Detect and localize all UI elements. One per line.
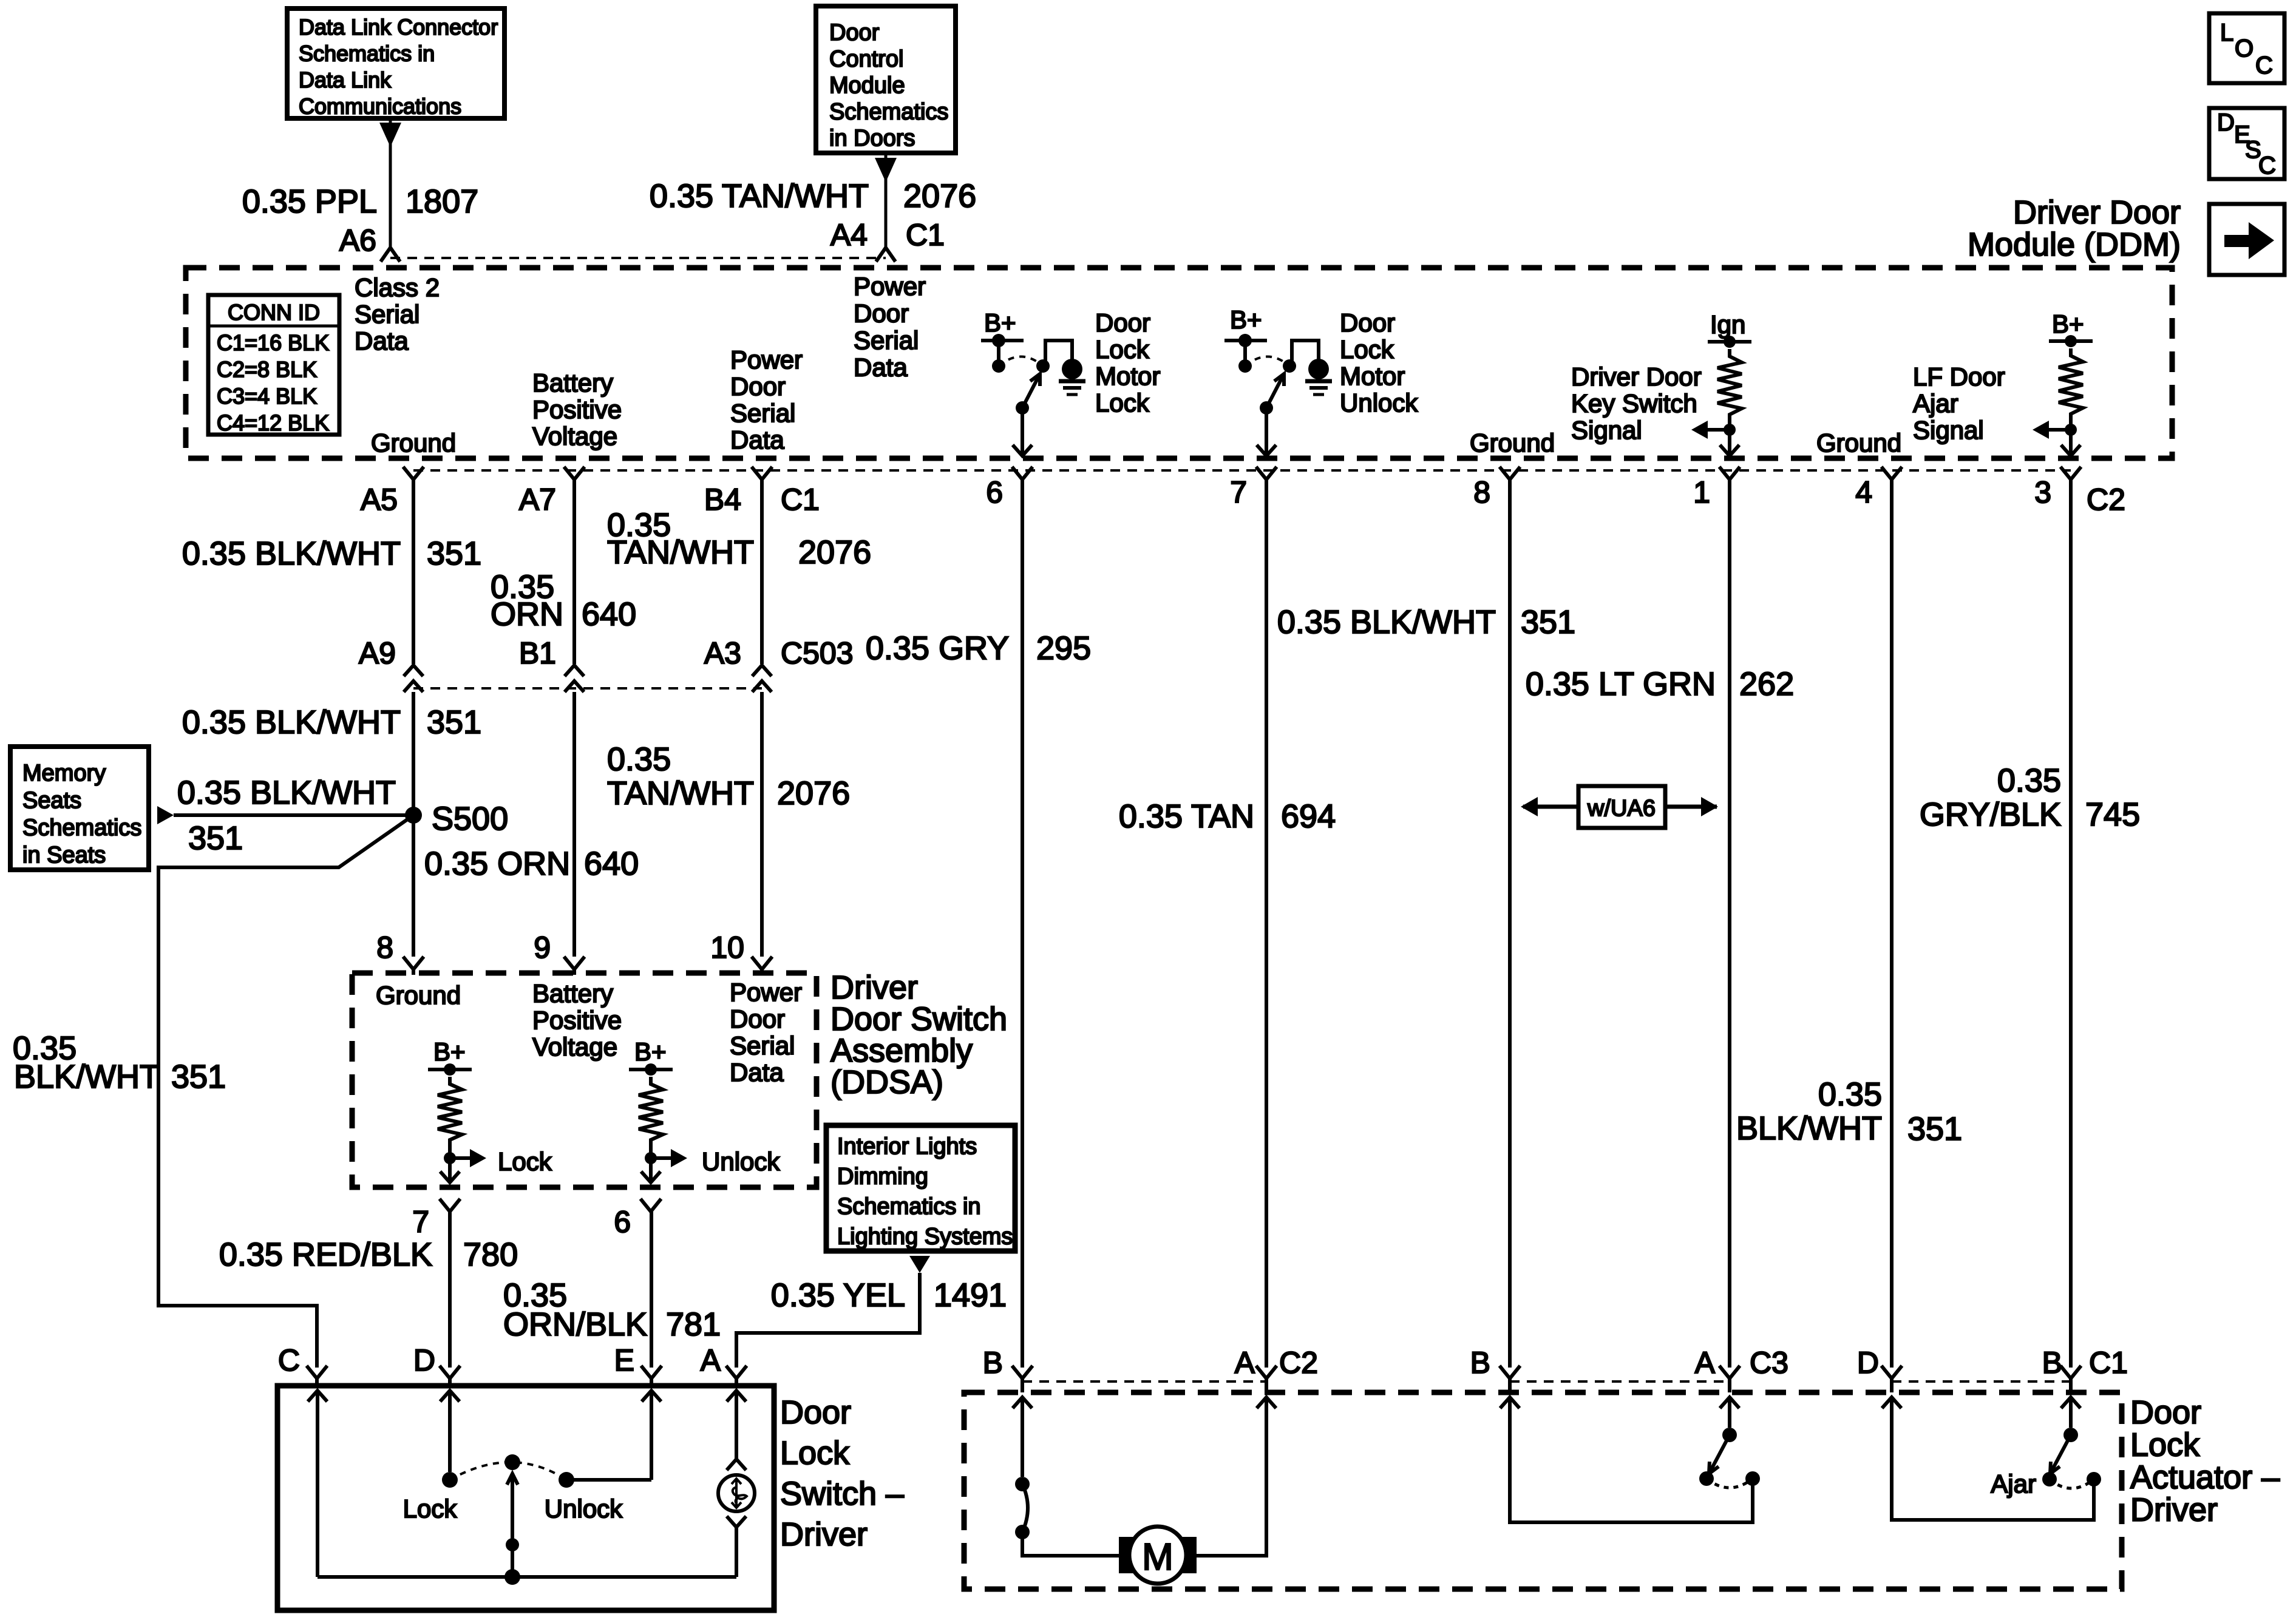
svg-text:0.35 TAN: 0.35 TAN xyxy=(1119,798,1254,835)
svg-text:Door: Door xyxy=(829,20,880,46)
wire from Memory Seats schematics to S500 xyxy=(157,806,413,824)
svg-text:745: 745 xyxy=(2085,796,2140,833)
svg-text:C1: C1 xyxy=(781,483,820,517)
reference box: Interior Lights Dimming Schematics in Lighting Systems xyxy=(826,1125,1015,1251)
svg-text:Serial: Serial xyxy=(854,326,919,354)
svg-text:Data: Data xyxy=(730,1058,784,1086)
wire TAN 694 from DDM pin 7 to actuator pin A xyxy=(1265,480,1268,1368)
output arrow to DDSA pin 6 xyxy=(641,1158,661,1182)
svg-text:2076: 2076 xyxy=(798,534,871,571)
svg-text:0.35 YEL: 0.35 YEL xyxy=(771,1277,905,1314)
connector fork at DDM pin 4 xyxy=(1881,467,1902,480)
svg-text:Control: Control xyxy=(829,47,904,72)
wire ORN/BLK 781 from DDSA pin 6 to switch pin E xyxy=(650,1212,653,1368)
svg-text:295: 295 xyxy=(1036,630,1091,666)
connector fork at DDM pin 7 xyxy=(1256,467,1277,480)
lock output node with arrow xyxy=(444,1147,486,1167)
svg-text:351: 351 xyxy=(1521,604,1575,640)
wire label 0.35 ORN/BLK xyxy=(503,1277,647,1343)
illumination lamp (switch) xyxy=(718,1459,755,1577)
svg-text:Ground: Ground xyxy=(371,429,456,457)
connector boundary dashed line C1 (actuator) xyxy=(1892,1380,2071,1383)
svg-text:B+: B+ xyxy=(634,1037,667,1066)
wire label 0.35 ORN (A7-B1) xyxy=(491,569,563,632)
svg-text:Door: Door xyxy=(730,372,786,401)
connector boundary dashed line (C1 top) xyxy=(390,257,886,259)
CONN ID table xyxy=(208,295,339,435)
svg-text:Door: Door xyxy=(854,299,909,328)
option marker w/UA6 xyxy=(1521,786,1718,828)
svg-text:Driver Door: Driver Door xyxy=(2013,194,2181,231)
door lock motor terminal (unlock) xyxy=(1308,359,1329,379)
connector fork at DDM pin B4 xyxy=(752,467,772,480)
svg-text:Memory: Memory xyxy=(22,761,106,786)
svg-text:0.35: 0.35 xyxy=(1997,762,2061,799)
inline connector chevrons at pin B1 xyxy=(565,665,584,692)
svg-text:351: 351 xyxy=(427,535,481,572)
svg-text:Assembly: Assembly xyxy=(830,1032,973,1069)
output arrow to DDM pin 6 xyxy=(1013,408,1032,456)
resistor (driver door key switch pull-up) xyxy=(1717,349,1742,422)
contact and motor bracket (lock driver) xyxy=(1036,341,1072,373)
svg-text:0.35 GRY: 0.35 GRY xyxy=(866,630,1009,666)
svg-text:C1=16 BLK: C1=16 BLK xyxy=(217,330,329,355)
svg-text:0.35 BLK/WHT: 0.35 BLK/WHT xyxy=(182,704,401,741)
svg-text:L: L xyxy=(2220,19,2233,46)
connector boundary dashed line C503 xyxy=(413,687,762,690)
wire TAN/WHT 2076 from A3 to DDSA pin 10 xyxy=(760,692,764,957)
reference box: Door Control Module Schematics in Doors xyxy=(816,6,956,153)
svg-text:A7: A7 xyxy=(519,483,556,517)
svg-text:Ajar: Ajar xyxy=(1991,1470,2036,1498)
svg-text:Lock: Lock xyxy=(403,1494,458,1523)
svg-text:in Doors: in Doors xyxy=(829,126,915,151)
svg-text:D: D xyxy=(2217,109,2235,136)
svg-text:Switch –: Switch – xyxy=(780,1476,904,1512)
wire BLK/WHT 351 from DDM pin 4 to actuator pin D xyxy=(1890,480,1894,1368)
connector fork at switch pin C xyxy=(307,1366,327,1386)
svg-text:Ign: Ign xyxy=(1710,310,1745,339)
svg-text:Schematics in: Schematics in xyxy=(299,41,435,66)
wire ORN 640 from B1 to DDSA pin 9 xyxy=(572,692,576,957)
actuator pin B entry arrow xyxy=(1013,1397,1032,1477)
svg-text:Lock: Lock xyxy=(1095,388,1150,417)
switch arm with arrowhead (lock driver) xyxy=(1016,374,1040,415)
svg-text:Unlock: Unlock xyxy=(702,1147,780,1176)
svg-text:Positive: Positive xyxy=(532,395,622,424)
svg-text:Communications: Communications xyxy=(299,94,461,119)
svg-text:Ground: Ground xyxy=(376,981,461,1009)
svg-text:C1: C1 xyxy=(2089,1346,2128,1380)
svg-text:Voltage: Voltage xyxy=(532,422,617,450)
svg-text:A6: A6 xyxy=(339,223,376,257)
svg-text:Data Link: Data Link xyxy=(299,67,392,92)
svg-text:1: 1 xyxy=(1693,475,1710,509)
wire unlock contact to pin E xyxy=(566,1478,651,1482)
svg-text:Lock: Lock xyxy=(780,1435,850,1471)
svg-text:Signal: Signal xyxy=(1571,416,1642,444)
svg-text:0.35 PPL: 0.35 PPL xyxy=(242,183,377,220)
connector symbol at DDM pin A6 xyxy=(381,248,400,262)
svg-text:Positive: Positive xyxy=(532,1006,622,1034)
svg-text:Module (DDM): Module (DDM) xyxy=(1968,226,2181,263)
svg-text:0.35 BLK/WHT: 0.35 BLK/WHT xyxy=(182,535,401,572)
wire from key switch to actuator pin B xyxy=(1510,1397,1753,1522)
wire label 0.35 BLK/WHT (pin 4) xyxy=(1736,1076,1882,1147)
svg-text:Driver: Driver xyxy=(2130,1492,2218,1528)
output arrow to DDM pin 3 xyxy=(2061,430,2080,456)
svg-text:Door: Door xyxy=(2130,1394,2201,1431)
svg-text:Driver: Driver xyxy=(830,969,918,1006)
svg-text:2076: 2076 xyxy=(903,178,976,214)
wire GRY/BLK 745 from DDM pin 3 to actuator pin B xyxy=(2069,480,2073,1368)
svg-text:Serial: Serial xyxy=(355,300,419,328)
svg-text:1807: 1807 xyxy=(406,183,478,220)
module name Driver Door Module (DDM) xyxy=(1968,194,2181,263)
connector fork at DDSA pin 9 xyxy=(564,957,585,975)
svg-text:A4: A4 xyxy=(830,218,868,252)
ground symbol (unlock motor) xyxy=(1305,381,1332,395)
B+ supply symbol (door lock motor unlock) xyxy=(1224,305,1267,373)
inline connector chevrons at pin A9 xyxy=(404,665,423,692)
svg-text:A: A xyxy=(701,1343,721,1377)
connector fork at switch pin E xyxy=(641,1366,662,1386)
resistor (unlock switch) xyxy=(639,1077,663,1147)
svg-text:Ground: Ground xyxy=(1816,429,1901,457)
svg-text:Signal: Signal xyxy=(1913,416,1984,444)
svg-text:B+: B+ xyxy=(1230,305,1262,334)
key switch signal node and left arrow xyxy=(1691,421,1736,439)
svg-text:0.35 TAN/WHT: 0.35 TAN/WHT xyxy=(650,178,869,214)
svg-text:0.35: 0.35 xyxy=(1818,1076,1882,1113)
svg-text:B4: B4 xyxy=(704,483,741,517)
svg-text:Actuator –: Actuator – xyxy=(2130,1459,2280,1496)
svg-text:A: A xyxy=(1695,1346,1716,1380)
wire 1807 from Data Link Connector box to DDM pin A6 xyxy=(379,118,401,249)
svg-text:2076: 2076 xyxy=(777,775,850,812)
actuator pin B/C1 entry arrow xyxy=(2061,1397,2080,1428)
svg-text:TAN/WHT: TAN/WHT xyxy=(607,775,754,812)
connector fork at DDSA pin 6 xyxy=(640,1199,661,1212)
key switch dotted arc xyxy=(1707,1479,1753,1488)
connector fork at actuator pin B/C1 xyxy=(2060,1366,2081,1392)
svg-text:Data: Data xyxy=(730,425,784,454)
resistor (lock switch) xyxy=(438,1077,462,1147)
connector fork at DDM pin 1 xyxy=(1719,467,1740,480)
legend box DESC xyxy=(2209,108,2284,179)
svg-text:Voltage: Voltage xyxy=(532,1032,617,1061)
wire label 0.35 TAN/WHT (A3-10) xyxy=(607,741,754,812)
svg-text:C503: C503 xyxy=(781,636,854,670)
connector fork at actuator pin A/C3 xyxy=(1719,1366,1740,1392)
B+ supply symbol (door lock motor lock) xyxy=(981,308,1024,373)
B+ supply symbol (unlock switch) xyxy=(629,1037,673,1076)
connector fork at DDSA pin 7 xyxy=(440,1199,460,1212)
switch dashed link (unlock driver) xyxy=(1245,357,1289,367)
svg-text:694: 694 xyxy=(1281,798,1336,835)
svg-text:Battery: Battery xyxy=(532,368,613,397)
wire GRY 295 from DDM pin 6 to actuator pin B xyxy=(1021,480,1024,1368)
actuator pin B (key switch) entry arrow xyxy=(1500,1397,1520,1408)
svg-text:Lock: Lock xyxy=(1095,335,1150,364)
svg-text:0.35 BLK/WHT: 0.35 BLK/WHT xyxy=(1277,604,1496,640)
svg-text:LF Door: LF Door xyxy=(1913,362,2005,391)
svg-text:Interior Lights: Interior Lights xyxy=(837,1134,977,1159)
svg-text:B: B xyxy=(1470,1346,1490,1380)
svg-text:Serial: Serial xyxy=(730,1031,795,1060)
svg-text:Schematics in: Schematics in xyxy=(837,1194,981,1219)
connector fork at DDSA pin 8 xyxy=(403,957,424,975)
svg-text:CONN ID: CONN ID xyxy=(228,300,320,325)
output arrow to DDSA pin 7 xyxy=(440,1158,460,1182)
svg-text:Battery: Battery xyxy=(532,979,613,1008)
svg-text:in Seats: in Seats xyxy=(22,842,106,868)
svg-text:7: 7 xyxy=(412,1205,429,1239)
svg-text:Data Link Connector: Data Link Connector xyxy=(299,15,498,39)
svg-text:Seats: Seats xyxy=(22,788,81,813)
ajar switch fixed contact xyxy=(2087,1472,2101,1486)
svg-text:Driver: Driver xyxy=(780,1516,868,1553)
svg-text:6: 6 xyxy=(614,1205,631,1239)
svg-text:351: 351 xyxy=(427,704,481,741)
wire ORN 640 from pin A7 xyxy=(572,480,576,664)
svg-text:A5: A5 xyxy=(361,483,398,517)
switch arm with arrowhead (unlock driver) xyxy=(1260,374,1284,415)
Door Lock Actuator dashed outline xyxy=(964,1392,2122,1589)
connector fork at DDM pin A7 xyxy=(564,467,585,480)
Driver Door Module (DDM) dashed outline xyxy=(186,268,2172,458)
svg-text:Ajar: Ajar xyxy=(1913,389,1958,418)
connector fork at DDM pin A5 xyxy=(403,467,424,480)
svg-text:C2: C2 xyxy=(2087,483,2125,517)
connector symbol at DDM pin A4/C1 xyxy=(876,248,895,262)
wire 2076 from Door Control Module box to DDM pin A4 xyxy=(875,153,897,249)
svg-text:E: E xyxy=(614,1343,634,1377)
svg-text:781: 781 xyxy=(666,1306,721,1343)
connector fork at actuator pin B xyxy=(1012,1366,1033,1392)
connector fork at DDM pin 8 xyxy=(1500,467,1520,480)
ajar switch arm xyxy=(2042,1428,2078,1486)
svg-text:Motor: Motor xyxy=(1095,362,1160,390)
svg-text:262: 262 xyxy=(1739,666,1794,702)
lock contact xyxy=(442,1472,458,1488)
svg-text:Data: Data xyxy=(355,327,409,355)
svg-text:A: A xyxy=(1235,1346,1255,1380)
reference box: Data Link Connector Schematics in Data Link Communications xyxy=(287,8,504,119)
key switch fixed contact xyxy=(1745,1471,1760,1486)
legend box LOC xyxy=(2209,13,2284,83)
connector fork at DDM pin 6 xyxy=(1012,467,1033,480)
svg-text:7: 7 xyxy=(1230,475,1247,509)
svg-text:0.35 BLK/WHT: 0.35 BLK/WHT xyxy=(177,775,396,811)
actuator pin A/C3 entry arrow xyxy=(1720,1397,1739,1428)
ground symbol (lock motor) xyxy=(1059,381,1085,395)
svg-text:Key Switch: Key Switch xyxy=(1571,389,1697,418)
svg-text:Serial: Serial xyxy=(730,399,795,427)
actuator pin D entry arrow xyxy=(1882,1397,1901,1408)
svg-text:0.35: 0.35 xyxy=(607,741,671,778)
svg-text:0.35 RED/BLK: 0.35 RED/BLK xyxy=(219,1236,432,1273)
svg-text:Power: Power xyxy=(730,345,803,374)
svg-text:(DDSA): (DDSA) xyxy=(830,1064,943,1100)
svg-text:GRY/BLK: GRY/BLK xyxy=(1920,796,2061,833)
switch common bus xyxy=(318,1569,736,1585)
svg-text:Motor: Motor xyxy=(1340,362,1405,390)
svg-text:Power: Power xyxy=(854,272,926,300)
svg-text:A3: A3 xyxy=(704,636,741,670)
svg-text:Unlock: Unlock xyxy=(1340,388,1418,417)
svg-text:Class 2: Class 2 xyxy=(355,273,440,302)
connector fork at switch pin A xyxy=(726,1366,747,1386)
switch wiper arm xyxy=(504,1454,520,1577)
legend box with right arrow xyxy=(2209,204,2284,275)
svg-text:351: 351 xyxy=(188,820,243,856)
actuator pin A entry arrow xyxy=(1257,1397,1276,1408)
svg-text:TAN/WHT: TAN/WHT xyxy=(607,534,754,571)
svg-text:351: 351 xyxy=(1907,1111,1962,1147)
svg-text:ORN/BLK: ORN/BLK xyxy=(503,1306,647,1343)
svg-text:10: 10 xyxy=(710,931,744,964)
svg-text:B: B xyxy=(2042,1346,2062,1380)
connector fork at DDM pin 3 xyxy=(2060,467,2081,480)
connector fork at actuator pin B (key switch) xyxy=(1500,1366,1520,1392)
wire label 0.35 BLK/WHT (S500-C) xyxy=(13,1030,160,1095)
svg-text:B+: B+ xyxy=(433,1037,466,1066)
svg-text:C1: C1 xyxy=(906,218,945,252)
svg-text:1491: 1491 xyxy=(934,1277,1007,1314)
svg-text:Ground: Ground xyxy=(1470,429,1555,457)
Door Lock Switch box outline xyxy=(277,1386,774,1610)
svg-text:Door: Door xyxy=(780,1394,851,1431)
wire label 0.35 GRY/BLK xyxy=(1920,762,2061,833)
switch pin C entry arrow xyxy=(308,1391,327,1577)
svg-text:Data: Data xyxy=(854,353,908,382)
switch wiper dashed arc xyxy=(450,1462,566,1480)
connector boundary dashed line below DDM xyxy=(413,469,2071,472)
connector fork at DDSA pin 10 xyxy=(752,957,772,975)
switch pin D entry arrow xyxy=(440,1391,460,1472)
door lock motor M xyxy=(1119,1527,1197,1584)
connector fork at actuator pin A/C2 xyxy=(1256,1366,1277,1392)
svg-text:0.35 ORN: 0.35 ORN xyxy=(424,846,570,882)
svg-text:Lock: Lock xyxy=(1340,335,1394,364)
Driver Door Switch Assembly dashed outline xyxy=(352,973,817,1187)
inline connector chevrons at pin A3 xyxy=(752,665,772,692)
svg-text:640: 640 xyxy=(582,596,636,632)
contact and motor bracket (unlock driver) xyxy=(1283,341,1319,373)
connector fork at actuator pin D xyxy=(1881,1366,1902,1392)
switch pin E entry arrow xyxy=(642,1391,661,1480)
svg-text:D: D xyxy=(413,1343,435,1377)
svg-text:C3=4 BLK: C3=4 BLK xyxy=(217,384,317,408)
svg-text:Door: Door xyxy=(730,1005,785,1033)
svg-text:8: 8 xyxy=(1473,475,1490,509)
svg-text:Door Switch: Door Switch xyxy=(830,1001,1007,1037)
svg-text:S500: S500 xyxy=(432,801,508,837)
svg-text:A9: A9 xyxy=(359,636,396,670)
svg-text:C4=12 BLK: C4=12 BLK xyxy=(217,410,329,435)
svg-text:BLK/WHT: BLK/WHT xyxy=(14,1059,160,1095)
svg-text:3: 3 xyxy=(2034,475,2051,509)
svg-text:Lock: Lock xyxy=(2130,1427,2200,1463)
svg-text:Door: Door xyxy=(1095,308,1150,337)
svg-text:9: 9 xyxy=(534,931,551,964)
svg-text:O: O xyxy=(2235,35,2254,62)
wire LT GRN 262 from DDM pin 1 to key switch xyxy=(1728,480,1731,1368)
svg-text:Driver Door: Driver Door xyxy=(1571,362,1702,391)
Ign supply symbol xyxy=(1708,310,1751,348)
svg-text:0.35 LT GRN: 0.35 LT GRN xyxy=(1526,666,1716,702)
svg-text:Module: Module xyxy=(829,73,905,98)
ajar switch dotted arc xyxy=(2050,1479,2094,1488)
reference box: Memory Seats Schematics in Seats xyxy=(10,747,149,870)
svg-text:ORN: ORN xyxy=(491,596,563,632)
svg-text:Lock: Lock xyxy=(498,1147,552,1176)
wire BLK/WHT 351 from DDM pin 8 to key switch xyxy=(1508,480,1512,1368)
svg-text:C: C xyxy=(2258,152,2276,179)
svg-text:Dimming: Dimming xyxy=(837,1164,928,1190)
svg-text:w/UA6: w/UA6 xyxy=(1587,796,1656,821)
svg-text:8: 8 xyxy=(376,931,393,964)
output arrow to DDM pin 1 xyxy=(1720,430,1739,456)
wire label 0.35 TAN/WHT (B4-A3) xyxy=(607,507,754,571)
connector boundary dashed line C2 (actuator) xyxy=(1022,1380,1266,1383)
svg-text:B+: B+ xyxy=(2052,310,2084,338)
wire RED/BLK 780 from DDSA pin 7 to switch pin D xyxy=(448,1212,452,1368)
unlock contact xyxy=(559,1472,574,1488)
wire branch from S500 to door lock switch pin C xyxy=(158,815,413,1368)
svg-text:780: 780 xyxy=(463,1236,518,1273)
wire TAN/WHT 2076 from pin B4 xyxy=(760,480,764,664)
wire YEL 1491 from Interior Lights schematics to door lock switch pin A xyxy=(736,1256,930,1368)
switch pin A entry arrow xyxy=(727,1391,746,1459)
svg-text:Schematics: Schematics xyxy=(829,100,948,125)
svg-text:640: 640 xyxy=(584,846,639,882)
resistor (LF door ajar pull-up) xyxy=(2059,348,2083,421)
svg-text:Door: Door xyxy=(1340,308,1395,337)
unlock output node with arrow xyxy=(645,1147,687,1167)
ajar signal node and left arrow xyxy=(2033,421,2077,439)
B+ supply symbol (ajar signal) xyxy=(2049,310,2093,347)
actuator lock switch contacts xyxy=(1015,1477,1030,1539)
svg-text:C2: C2 xyxy=(1279,1346,1318,1380)
wire from contact to motor xyxy=(1022,1532,1119,1556)
svg-text:6: 6 xyxy=(986,475,1003,509)
wire from ajar switch to actuator pin D xyxy=(1892,1397,2094,1520)
wire from motor to actuator pin A xyxy=(1197,1397,1266,1556)
splice S500 xyxy=(405,801,508,837)
svg-text:4: 4 xyxy=(1855,475,1872,509)
svg-text:Unlock: Unlock xyxy=(545,1494,623,1523)
svg-text:B+: B+ xyxy=(984,308,1016,337)
svg-text:B: B xyxy=(983,1346,1003,1380)
wire BLK/WHT 351 from A9 to S500 xyxy=(412,692,415,957)
svg-text:D: D xyxy=(1857,1346,1879,1380)
svg-text:C: C xyxy=(2255,52,2273,79)
svg-text:C2=8 BLK: C2=8 BLK xyxy=(217,357,317,382)
svg-text:M: M xyxy=(1142,1536,1173,1578)
svg-text:C3: C3 xyxy=(1750,1346,1788,1380)
door lock motor terminal (lock) xyxy=(1062,359,1082,379)
connector fork at switch pin D xyxy=(440,1366,460,1386)
svg-text:C: C xyxy=(278,1343,300,1377)
svg-text:BLK/WHT: BLK/WHT xyxy=(1736,1110,1882,1147)
key switch arm xyxy=(1699,1428,1737,1486)
connector boundary dashed line C3 (actuator) xyxy=(1510,1380,1730,1383)
switch dashed link (lock driver) xyxy=(999,357,1043,367)
svg-text:Power: Power xyxy=(730,978,802,1006)
svg-text:B1: B1 xyxy=(519,636,556,670)
